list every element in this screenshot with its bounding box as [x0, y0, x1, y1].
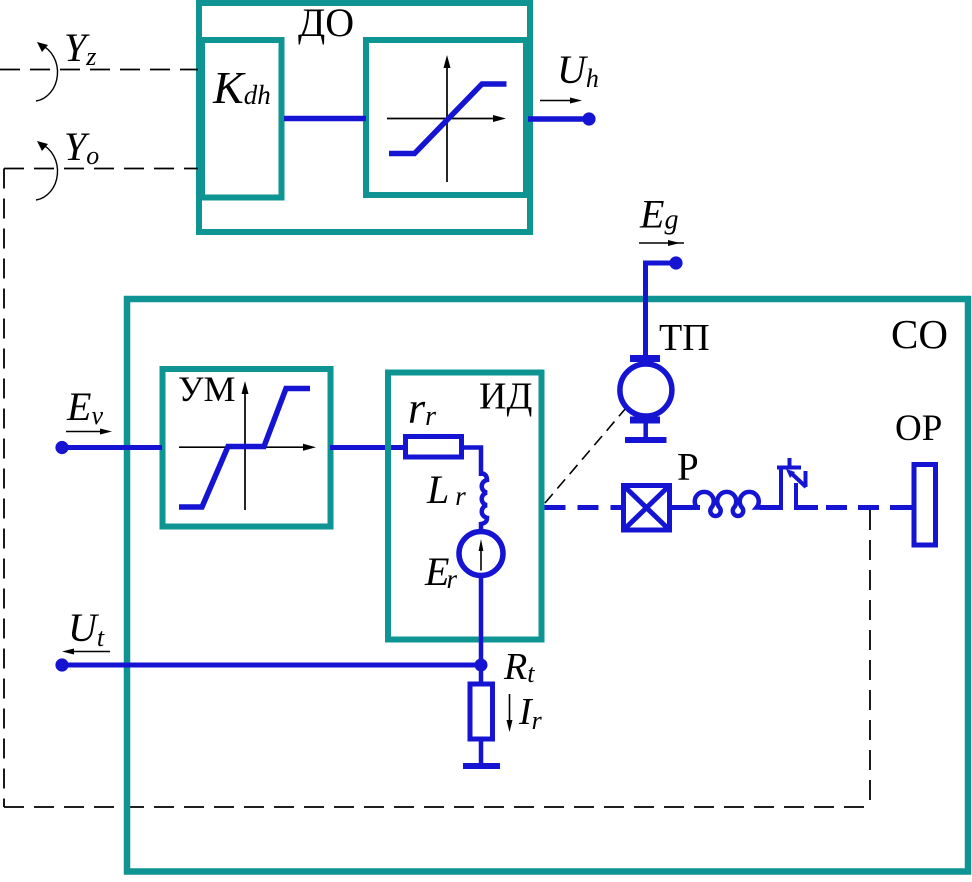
ground: [463, 763, 500, 769]
wire feedback left vertical dashed: [3, 169, 5, 808]
saturation block box in DO: [366, 40, 526, 195]
wire feedback right vertical dashed from OP: [869, 510, 871, 807]
arrow Uh: [540, 98, 582, 104]
axis vertical of DO saturation: [444, 55, 451, 182]
junction node Rt: [475, 659, 488, 672]
emf source Er circle: [459, 532, 503, 576]
arrow Eg: [639, 240, 684, 246]
svg-text:Р: Р: [677, 446, 699, 489]
wire Ut: [62, 663, 481, 668]
wire rr to corner: [464, 448, 481, 477]
dead-zone saturation curve in UM: [179, 389, 310, 508]
crank symbol: [777, 458, 806, 508]
block UM box: [163, 369, 331, 527]
wire Uh output: [528, 116, 586, 122]
tachogenerator TP brush bottom: [630, 417, 660, 424]
arrow Ir: [507, 694, 513, 732]
wire Rt to ground: [479, 739, 484, 766]
arrow inside Er: [479, 539, 484, 571]
resistor rr: [406, 437, 462, 458]
wire spring to crank: [760, 505, 783, 510]
wire crank to OP dashed: [794, 505, 818, 510]
axis horizontal of DO saturation: [387, 115, 506, 122]
terminal Eg dot: [669, 256, 682, 269]
svg-text:СО: СО: [891, 311, 948, 357]
svg-text:УМ: УМ: [178, 369, 236, 409]
object OP rectangle: [914, 465, 936, 546]
arc arrow Yz: [36, 42, 58, 101]
wire UM to ID: [330, 445, 403, 450]
svg-text:ИД: ИД: [479, 376, 532, 418]
resistor Rt: [470, 684, 493, 739]
block Kdh box: [202, 40, 282, 198]
axis vertical of UM: [242, 381, 249, 510]
axis horizontal of UM: [179, 444, 316, 451]
saturation curve in DO: [389, 84, 507, 154]
svg-text:ДО: ДО: [298, 0, 354, 45]
wire reducer to spring: [672, 505, 700, 510]
block ID box: [388, 373, 542, 640]
wire shaft dashed ID to reducer: [545, 505, 622, 510]
wire Ev input: [62, 445, 162, 450]
svg-text:ТП: ТП: [659, 317, 710, 359]
terminal Ut dot: [55, 658, 68, 671]
wire feedback bottom dashed: [4, 806, 870, 808]
arrow Ut pointing left: [62, 649, 110, 655]
mechanical dashed diagonal to TP: [545, 408, 626, 503]
arc arrow Yo: [36, 141, 58, 200]
tachogenerator TP brush top: [630, 355, 660, 362]
arrow Ev: [66, 429, 112, 435]
elastic coupling spring: [695, 492, 762, 516]
wire Eg to TP: [646, 263, 677, 356]
svg-text:ОР: ОР: [895, 408, 942, 449]
wire Er to junction: [479, 577, 484, 684]
block SO outer box: [127, 299, 968, 872]
block DO outer box: [199, 3, 530, 232]
tachogenerator TP circle: [620, 364, 672, 416]
node Yo dashed input line: [4, 168, 198, 170]
inductor Lr: [481, 473, 487, 531]
terminal Uh dot: [582, 112, 595, 125]
wire Kdh to saturation block: [284, 116, 366, 122]
terminal Ev dot: [55, 441, 68, 454]
node Yz dashed input line: [0, 69, 198, 71]
reducer P crossed box: [624, 486, 670, 531]
tachogenerator TP stand: [643, 423, 648, 438]
tachogenerator TP stand base: [625, 437, 667, 443]
wire into OP: [890, 505, 914, 510]
